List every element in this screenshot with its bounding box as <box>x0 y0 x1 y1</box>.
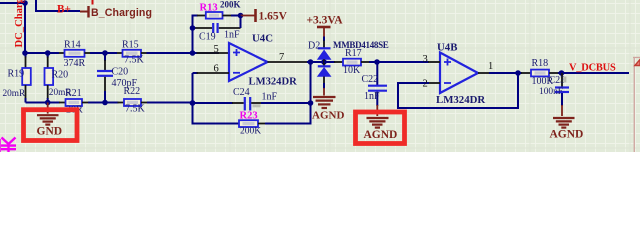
svg-text:C23: C23 <box>549 75 566 86</box>
svg-text:R20: R20 <box>52 69 69 80</box>
svg-text:374R: 374R <box>64 58 86 69</box>
value 200K <box>220 0 241 10</box>
svg-text:R19: R19 <box>8 68 25 79</box>
value 100R <box>532 76 554 87</box>
label R18 <box>532 58 549 69</box>
svg-text:R14: R14 <box>64 40 81 51</box>
wire pin2 feedback <box>398 74 518 108</box>
resistor R14 <box>59 50 91 57</box>
ground AGND boxed <box>364 105 398 141</box>
svg-text:B_Charging: B_Charging <box>91 7 152 19</box>
label C23 <box>549 75 566 86</box>
svg-text:GND: GND <box>37 125 63 137</box>
label R23 <box>240 110 258 121</box>
value 1nF <box>224 30 240 41</box>
background grid <box>0 0 640 152</box>
value 20mR <box>49 88 73 98</box>
node junction (192.5,103) <box>190 100 196 106</box>
label C19 <box>199 31 216 42</box>
node junction (310.5,103) <box>308 100 314 106</box>
pin 3 stub <box>428 61 440 63</box>
svg-text:R21: R21 <box>65 88 82 99</box>
svg-text:D2: D2 <box>308 41 320 52</box>
capacitor C20 <box>97 53 113 103</box>
wire output pin7 <box>268 61 323 63</box>
op-amp U4C <box>229 43 268 81</box>
svg-text:1.65V: 1.65V <box>259 11 288 23</box>
wire main input bus y=53 <box>25 52 59 54</box>
resistor R13 <box>206 12 223 19</box>
selection box AGND <box>356 112 405 144</box>
capacitor C22 <box>368 62 387 106</box>
svg-text:B+: B+ <box>57 3 71 15</box>
svg-text:R15: R15 <box>122 40 139 51</box>
value 20R <box>66 105 83 116</box>
power +3.3VA <box>307 15 344 49</box>
value 10K <box>343 65 361 76</box>
node junction (324,62) <box>321 59 327 65</box>
wire R13 right <box>223 15 241 17</box>
svg-text:AGND: AGND <box>550 129 584 141</box>
svg-text:DC_Charge: DC_Charge <box>14 0 25 48</box>
svg-text:AGND: AGND <box>312 109 344 121</box>
wire diode mid <box>323 59 325 66</box>
selection box GND <box>24 110 78 141</box>
resistor R18 <box>521 70 559 77</box>
svg-text:C20: C20 <box>112 66 129 77</box>
label U4B <box>437 42 457 54</box>
svg-text:C24: C24 <box>233 87 250 98</box>
svg-text:3: 3 <box>423 54 428 65</box>
svg-text:5: 5 <box>214 44 219 55</box>
wire output pin1 <box>478 72 522 74</box>
label C22 <box>362 74 379 85</box>
op-amp U4B <box>440 53 478 94</box>
port B_Charging <box>80 6 152 19</box>
sheet border line <box>633 57 640 152</box>
marker red tick <box>92 0 94 5</box>
label R13 <box>200 3 218 14</box>
resistor R17 <box>324 59 370 66</box>
svg-text:200K: 200K <box>240 126 261 136</box>
node junction (47.7,53) <box>45 50 51 56</box>
capacitor C19 <box>193 16 241 34</box>
svg-text:AGND: AGND <box>364 129 398 141</box>
pin 5 stub <box>197 52 230 54</box>
svg-text:LM324DR: LM324DR <box>249 77 298 88</box>
wire R13 net left <box>193 16 207 29</box>
ground AGND below D2 <box>312 88 344 121</box>
wire R15 to pin5 <box>147 52 220 54</box>
svg-text:C19: C19 <box>199 31 216 42</box>
wire R22 to pin6 node <box>147 102 193 104</box>
wire pin5 node vertical <box>192 28 194 53</box>
label R21 <box>65 88 82 99</box>
svg-text:+3.3VA: +3.3VA <box>307 15 344 27</box>
node junction (192.5,28) <box>190 25 196 31</box>
value remnant C24 <box>253 104 261 107</box>
svg-text:LM324DR: LM324DR <box>436 94 485 106</box>
svg-text:C22: C22 <box>362 74 379 85</box>
resistor R19 <box>22 53 31 103</box>
label R20 <box>52 69 69 80</box>
label R19 <box>8 68 25 79</box>
node junction (192.5,53) <box>190 50 196 56</box>
wire R21-R22 <box>88 102 119 104</box>
node junction (561.5,73) <box>559 70 565 76</box>
value MMBD4148SE <box>333 40 389 50</box>
pin number 5 <box>214 44 219 55</box>
label R14 <box>64 40 81 51</box>
label C24 <box>233 87 250 98</box>
ground AGND right <box>550 105 584 141</box>
pin number 7 <box>279 52 284 63</box>
label C20 <box>112 66 129 77</box>
svg-text:U4C: U4C <box>252 33 273 45</box>
pin number 1 <box>488 61 493 72</box>
wire bottom bus y=103 <box>26 102 61 104</box>
value 7.5K <box>124 54 145 65</box>
node junction (518,73) <box>515 70 521 76</box>
svg-text:10K: 10K <box>343 65 361 76</box>
svg-text:1nF: 1nF <box>364 91 380 102</box>
pin number 2 <box>423 79 428 90</box>
node junction (310.5,62) <box>308 59 314 65</box>
text B+ <box>57 3 71 15</box>
value 1nF <box>364 91 380 102</box>
resistor R20 <box>45 53 54 103</box>
net label V_DCBUS <box>569 62 616 73</box>
node junction (25,3) <box>22 0 28 6</box>
node junction (47.7,103) <box>45 100 51 106</box>
svg-text:R17: R17 <box>345 48 362 59</box>
svg-text:1nF: 1nF <box>224 30 240 41</box>
label D2 <box>308 41 320 52</box>
value 7.5K <box>125 103 146 114</box>
svg-text:R18: R18 <box>532 58 549 69</box>
capacitor C24 <box>193 97 311 111</box>
wire pin6 vertical x=192.5 <box>192 73 194 103</box>
wire between R14 R15 <box>90 52 117 54</box>
label R17 <box>345 48 362 59</box>
svg-text:R23: R23 <box>240 110 258 121</box>
marker magenta glyph <box>0 138 16 153</box>
power port 1.65V <box>241 9 288 23</box>
capacitor C23 <box>555 73 569 106</box>
wire R17 to pin3 <box>369 61 429 63</box>
node junction (377,62) <box>374 59 380 65</box>
resistor R15 <box>117 50 148 57</box>
label R15 <box>122 40 139 51</box>
label LM324DR <box>249 77 298 88</box>
wire R18 right to V_DCBUS <box>558 72 629 74</box>
value 470pF <box>112 78 138 89</box>
value 1nF <box>262 92 278 103</box>
ground GND symbol <box>37 103 63 138</box>
label LM324DR <box>436 94 485 106</box>
node junction (105,103) <box>102 100 108 106</box>
value remnant C23 <box>563 77 566 83</box>
svg-text:7.5K: 7.5K <box>124 54 145 65</box>
text DC_Charge <box>14 0 25 48</box>
svg-text:1: 1 <box>488 61 493 72</box>
svg-text:200K: 200K <box>220 0 241 10</box>
pin number 3 <box>423 54 428 65</box>
value 200K <box>240 126 261 136</box>
svg-text:1nF: 1nF <box>262 92 278 103</box>
svg-text:R13: R13 <box>200 3 218 14</box>
svg-text:R22: R22 <box>124 86 141 97</box>
node junction (105,53) <box>102 50 108 56</box>
svg-text:U4B: U4B <box>437 42 457 54</box>
svg-text:V_DCBUS: V_DCBUS <box>569 62 616 73</box>
resistor R23 <box>193 103 311 127</box>
resistor R22 <box>118 99 149 106</box>
node junction (25,53) <box>22 50 28 56</box>
pin number 6 <box>214 64 219 75</box>
svg-text:7.5K: 7.5K <box>125 103 146 114</box>
wire vertical left bus x=25 <box>24 3 26 53</box>
wire pin6 <box>193 72 230 74</box>
svg-text:20mR: 20mR <box>3 89 27 99</box>
label R22 <box>124 86 141 97</box>
node junction (240.5,15.5) <box>238 13 244 19</box>
svg-text:100nF: 100nF <box>539 87 563 97</box>
resistor R21 <box>59 99 89 106</box>
svg-text:7: 7 <box>279 52 284 63</box>
svg-text:2: 2 <box>423 79 428 90</box>
marker red triangle <box>635 60 640 66</box>
svg-text:6: 6 <box>214 64 219 75</box>
wire top B+ bus <box>0 2 25 4</box>
value 20mR <box>3 89 27 99</box>
diode D2 top <box>318 48 331 59</box>
wire B_Charging branch <box>36 0 80 11</box>
value 100nF <box>539 87 563 97</box>
diode D2 bottom <box>318 66 331 88</box>
wire feedback vertical x=310.5 <box>310 62 312 124</box>
label U4C <box>252 33 273 45</box>
value 374R <box>64 58 86 69</box>
